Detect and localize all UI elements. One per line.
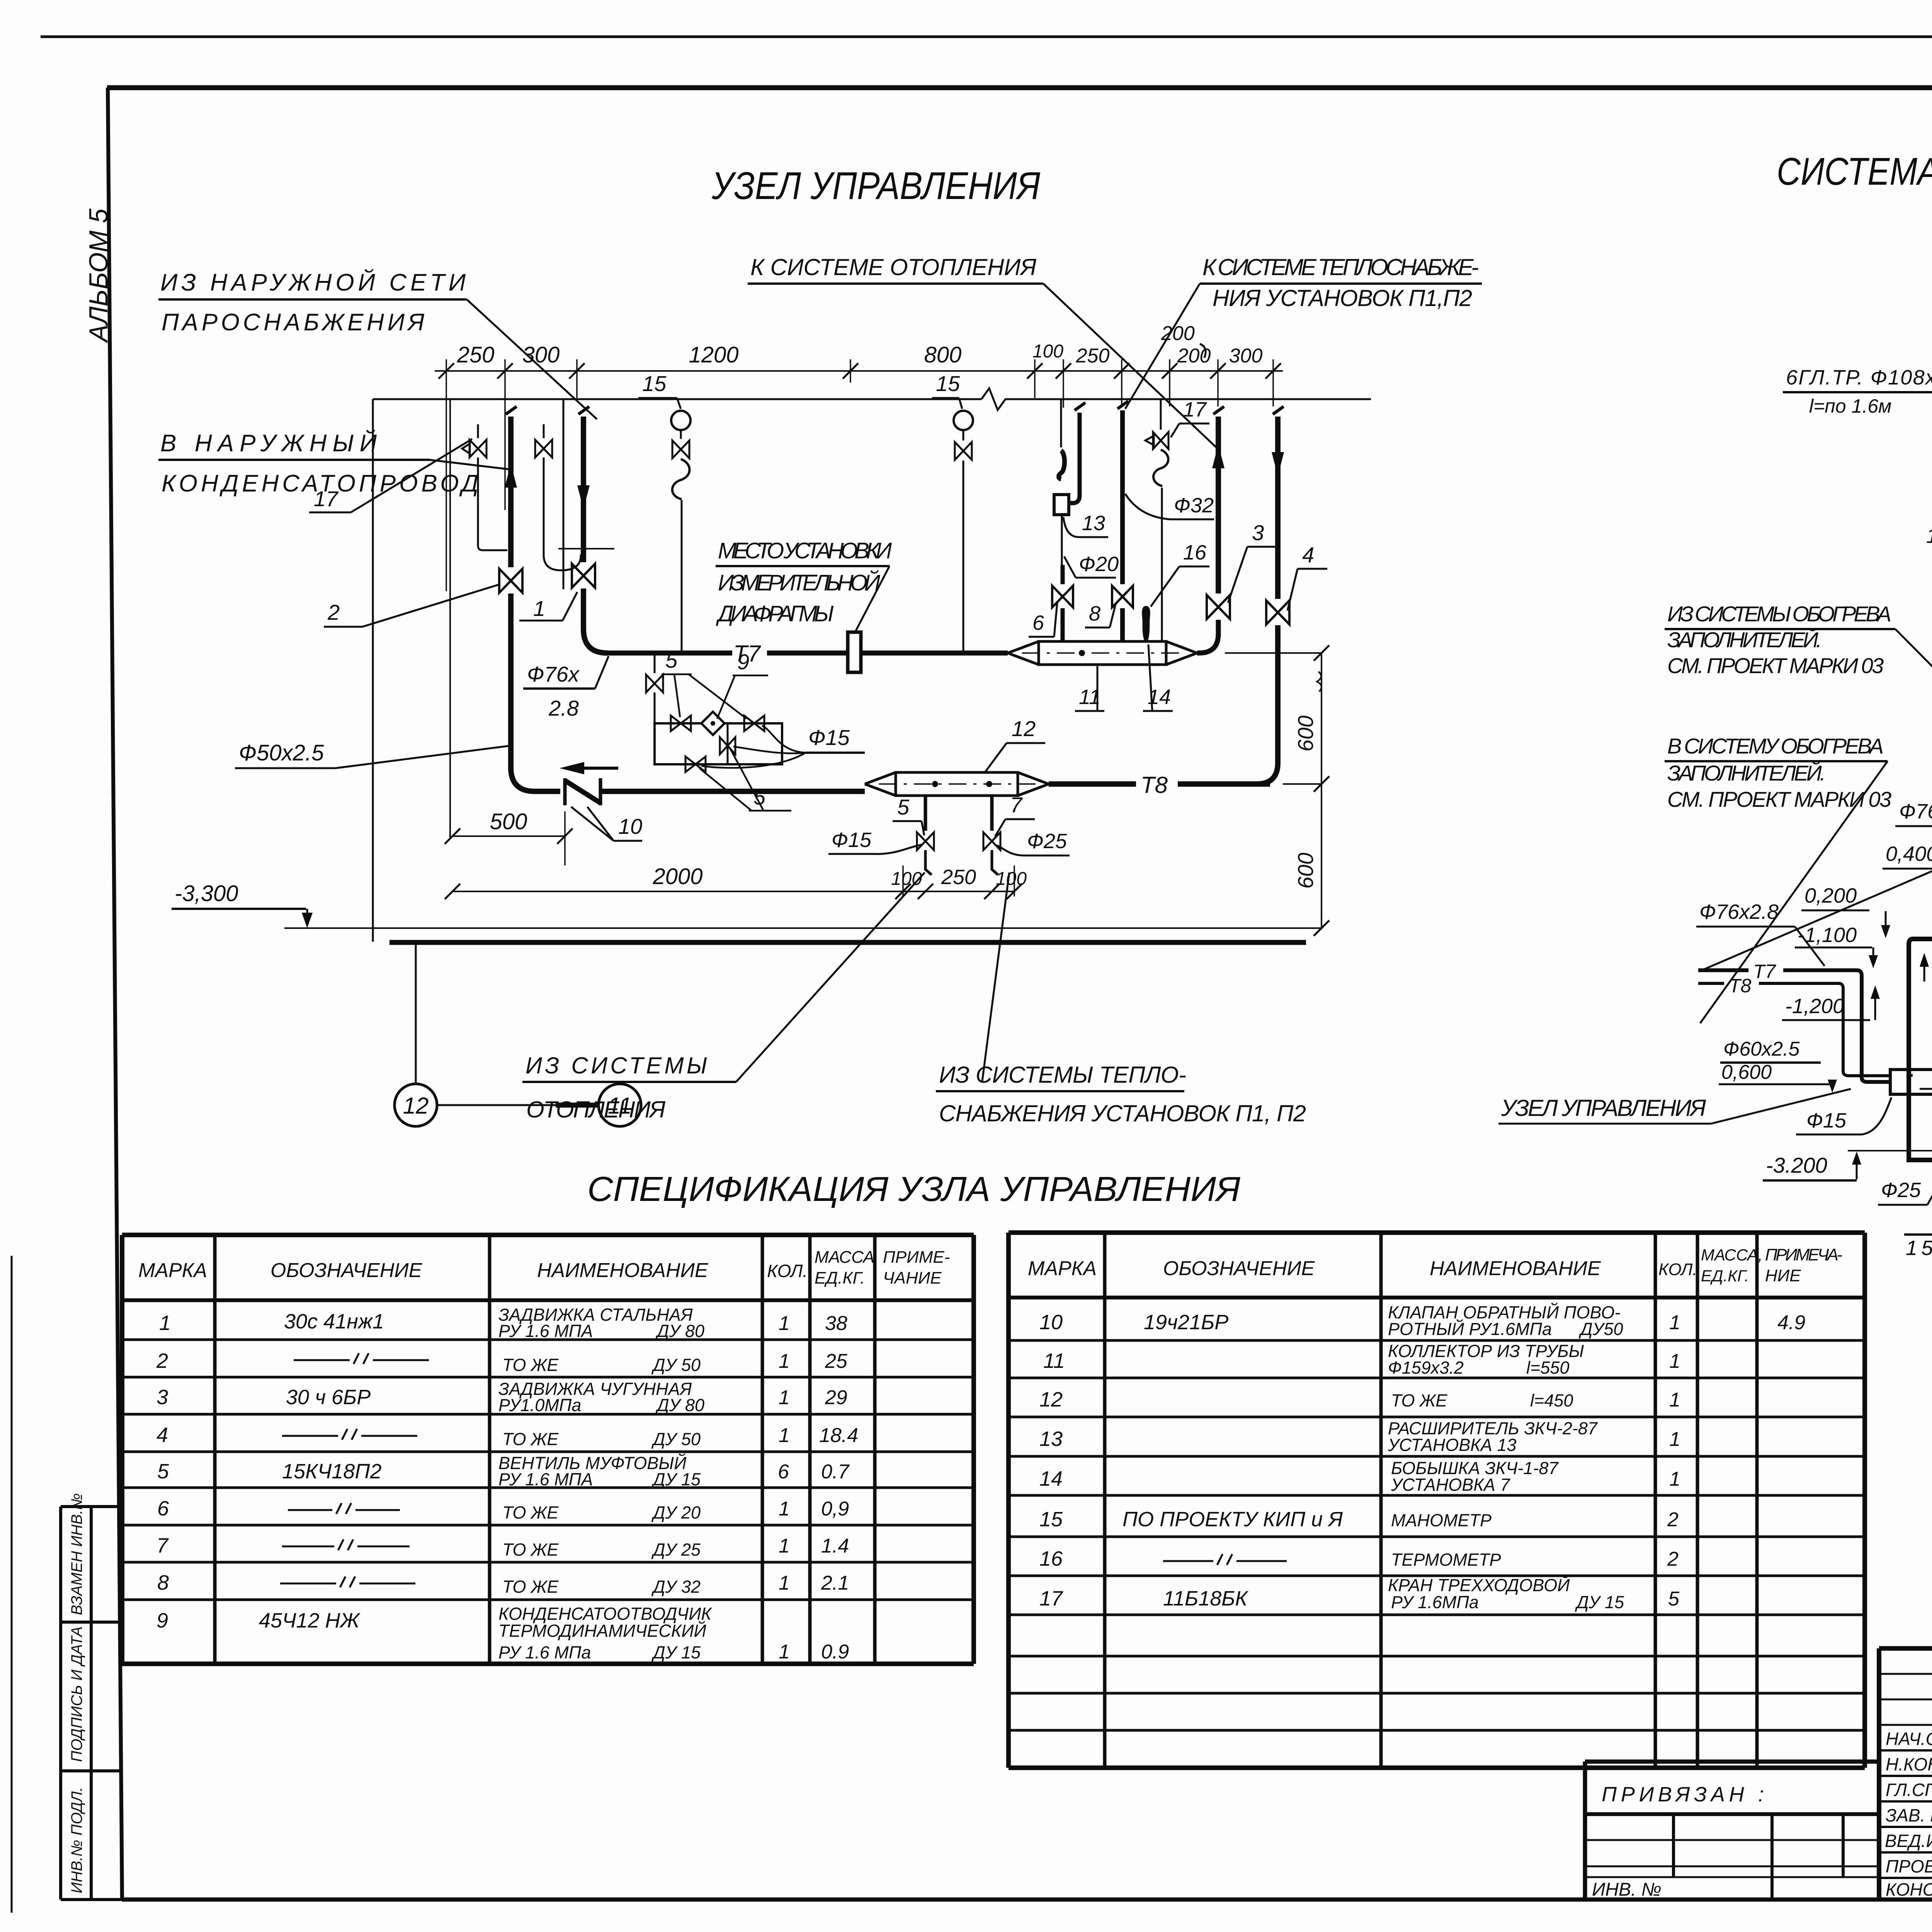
svg-text:НАЧ.ОТД.: НАЧ.ОТД. — [1886, 1729, 1932, 1749]
svg-text:-1,100: -1,100 — [1798, 923, 1857, 947]
svg-text:9: 9 — [737, 650, 749, 674]
svg-text:ТО ЖЕ: ТО ЖЕ — [502, 1503, 559, 1522]
riser: condensate out (pos2 valve) — [506, 406, 517, 414]
svg-text:Ф76х: Ф76х — [527, 662, 580, 686]
inventory side box — [61, 1507, 122, 1900]
dim labels — [457, 341, 1263, 367]
svg-text:ВЗАМЕН ИНВ.№: ВЗАМЕН ИНВ.№ — [68, 1493, 85, 1615]
svg-text:1: 1 — [159, 1311, 171, 1335]
svg-text:К СИСТЕМЕ ОТОПЛЕНИЯ: К СИСТЕМЕ ОТОПЛЕНИЯ — [750, 254, 1036, 280]
svg-text:15: 15 — [1039, 1508, 1063, 1531]
svg-text:6: 6 — [1032, 611, 1044, 634]
svg-text:1: 1 — [1669, 1428, 1680, 1451]
svg-text:5: 5 — [157, 1460, 169, 1483]
svg-text:РУ 1.6 МПА: РУ 1.6 МПА — [498, 1321, 593, 1341]
rows col2 — [1122, 1311, 1343, 1610]
svg-text:ПРИМЕЧА-: ПРИМЕЧА- — [1765, 1245, 1842, 1264]
svg-text:Ф32: Ф32 — [1174, 494, 1214, 517]
svg-text:1: 1 — [779, 1424, 790, 1447]
svg-text:ОБОЗНАЧЕНИЕ: ОБОЗНАЧЕНИЕ — [1163, 1257, 1315, 1280]
svg-text:16: 16 — [1183, 541, 1207, 564]
svg-text:ТО ЖЕ: ТО ЖЕ — [1391, 1391, 1447, 1410]
rows col4/5 — [1667, 1311, 1805, 1610]
condensate trap diamond pos9 — [701, 712, 724, 735]
svg-text:ДУ 15: ДУ 15 — [651, 1469, 701, 1489]
riser pos4 — [1273, 406, 1284, 414]
outer — [1879, 1648, 1932, 1900]
svg-text:НАИМЕНОВАНИЕ: НАИМЕНОВАНИЕ — [1430, 1257, 1601, 1280]
svg-text:ДУ 32: ДУ 32 — [651, 1577, 701, 1597]
svg-text:ПРИМЕ-: ПРИМЕ- — [883, 1248, 950, 1267]
svg-text:38: 38 — [825, 1312, 847, 1335]
svg-text:ТО ЖЕ: ТО ЖЕ — [502, 1540, 559, 1560]
svg-text:0.9: 0.9 — [821, 1641, 849, 1663]
svg-text:КОЛ.: КОЛ. — [767, 1261, 808, 1281]
svg-text:0.7: 0.7 — [821, 1461, 850, 1483]
dim 500 — [452, 835, 565, 837]
svg-text:ЗАПОЛНИТЕЛЕЙ.: ЗАПОЛНИТЕЛЕЙ. — [1667, 761, 1826, 785]
wall vertical 2 — [563, 399, 565, 589]
measuring diaphragm — [848, 632, 861, 672]
svg-text:Ф76х2.8: Ф76х2.8 — [1699, 900, 1779, 923]
collector pos12 on T8 — [865, 772, 896, 796]
svg-text:МАССА: МАССА — [815, 1248, 874, 1267]
svg-text:ЕД.КГ.: ЕД.КГ. — [1701, 1267, 1749, 1285]
break squiggle — [981, 388, 1012, 410]
riser: steam in (pos1 valve) — [578, 406, 589, 414]
svg-text:17: 17 — [1183, 398, 1207, 421]
middle stub valve — [727, 723, 729, 764]
three-way cock riser w/ manometer line — [1160, 399, 1162, 430]
drops below collector 12 — [924, 796, 927, 831]
svg-text:250: 250 — [941, 866, 976, 889]
svg-text:Ф15: Ф15 — [1806, 1109, 1847, 1132]
svg-text:45Ч12 НЖ: 45Ч12 НЖ — [259, 1609, 361, 1632]
svg-text:800: 800 — [924, 342, 962, 367]
svg-text:ИНВ. №: ИНВ. № — [1592, 1879, 1662, 1900]
svg-text:1.4: 1.4 — [821, 1535, 849, 1557]
svg-text:500: 500 — [490, 809, 527, 834]
svg-text:30 ч 6БР: 30 ч 6БР — [286, 1386, 371, 1409]
svg-text:2000: 2000 — [652, 864, 702, 889]
svg-text:НИЕ: НИЕ — [1765, 1266, 1801, 1285]
svg-text:ДУ 50: ДУ 50 — [651, 1355, 701, 1375]
svg-text:2.8: 2.8 — [548, 696, 579, 720]
svg-text:1: 1 — [1669, 1350, 1680, 1372]
svg-text:РУ1.0МПа: РУ1.0МПа — [498, 1395, 581, 1415]
svg-text:13: 13 — [1082, 512, 1105, 535]
svg-text:ЧАНИЕ: ЧАНИЕ — [883, 1269, 942, 1287]
svg-text:МАРКА: МАРКА — [1028, 1257, 1097, 1280]
svg-text:10: 10 — [1039, 1311, 1063, 1334]
svg-text:УСТАНОВКА 13: УСТАНОВКА 13 — [1388, 1435, 1516, 1455]
svg-text:16: 16 — [1039, 1547, 1063, 1570]
svg-text:ИЗ СИСТЕМЫ: ИЗ СИСТЕМЫ — [526, 1053, 707, 1078]
svg-text:ИЗМЕРИТЕЛЬНОЙ: ИЗМЕРИТЕЛЬНОЙ — [718, 570, 881, 595]
svg-text:100: 100 — [1032, 341, 1063, 362]
svg-text:1: 1 — [1669, 1468, 1680, 1490]
svg-text:100: 100 — [891, 869, 922, 889]
svg-text:2: 2 — [156, 1349, 168, 1372]
svg-text:МЕСТО УСТАНОВКИ: МЕСТО УСТАНОВКИ — [718, 538, 892, 563]
svg-text:ПРИВЯЗАН :: ПРИВЯЗАН : — [1602, 1783, 1764, 1806]
svg-text:Ф25: Ф25 — [1881, 1179, 1921, 1202]
svg-text:1: 1 — [779, 1498, 790, 1520]
check valve pos10 — [565, 778, 600, 805]
svg-text:250: 250 — [1076, 345, 1110, 367]
svg-text:Ф15: Ф15 — [808, 725, 850, 750]
svg-text:УСТАНОВКА 7: УСТАНОВКА 7 — [1391, 1475, 1510, 1495]
svg-text:11Б18БК: 11Б18БК — [1163, 1587, 1248, 1610]
svg-text:ЕД.КГ.: ЕД.КГ. — [815, 1269, 865, 1287]
svg-text:ЗАПОЛНИТЕЛЕЙ.: ЗАПОЛНИТЕЛЕЙ. — [1667, 628, 1822, 652]
svg-text:ИЗ СИСТЕМЫ ТЕПЛО-: ИЗ СИСТЕМЫ ТЕПЛО- — [939, 1062, 1186, 1088]
svg-text:0,9: 0,9 — [821, 1498, 849, 1520]
svg-text:l=по 1.6м: l=по 1.6м — [1809, 395, 1891, 417]
svg-text:ДИАФРАГМЫ: ДИАФРАГМЫ — [716, 601, 834, 626]
svg-text:КОНСТР.: КОНСТР. — [1886, 1879, 1932, 1900]
rows col1 numbers — [156, 1311, 171, 1632]
wall top line with break — [373, 398, 1371, 400]
svg-text:ДУ 20: ДУ 20 — [651, 1503, 701, 1522]
svg-text:1: 1 — [779, 1572, 790, 1594]
dim extension verticals — [446, 359, 1273, 591]
svg-text:В СИСТЕМУ ОБОГРЕВА: В СИСТЕМУ ОБОГРЕВА — [1667, 734, 1884, 758]
small top rows — [1879, 1674, 1932, 1725]
svg-text:14: 14 — [1039, 1467, 1063, 1490]
svg-text:СНАБЖЕНИЯ УСТАНОВОК П1, П2: СНАБЖЕНИЯ УСТАНОВОК П1, П2 — [939, 1100, 1306, 1126]
svg-text:МАССА,: МАССА, — [1701, 1246, 1763, 1264]
role rows — [1879, 1750, 1932, 1878]
svg-text:2.1: 2.1 — [821, 1572, 849, 1594]
svg-text:ОБОЗНАЧЕНИЕ: ОБОЗНАЧЕНИЕ — [270, 1259, 423, 1282]
rows col5 massa — [819, 1312, 858, 1663]
svg-text:2: 2 — [327, 600, 340, 624]
svg-text:8: 8 — [1089, 602, 1100, 625]
svg-text:5: 5 — [1668, 1588, 1680, 1610]
svg-text:ВЕД.ИНЖ: ВЕД.ИНЖ — [1885, 1831, 1932, 1851]
svg-text:Ф50х2.5: Ф50х2.5 — [239, 740, 324, 765]
svg-text:0,600: 0,600 — [1721, 1061, 1772, 1083]
short thick riser joining expander — [1075, 403, 1085, 410]
svg-text:600: 600 — [1293, 853, 1318, 889]
rows col4 kol — [778, 1312, 790, 1663]
svg-text:1: 1 — [1669, 1389, 1680, 1411]
svg-text:МАРКА: МАРКА — [138, 1259, 207, 1282]
svg-text:НАИМЕНОВАНИЕ: НАИМЕНОВАНИЕ — [537, 1259, 709, 1282]
svg-text:ТО ЖЕ: ТО ЖЕ — [502, 1577, 559, 1597]
svg-text:8: 8 — [157, 1571, 169, 1594]
svg-text:30с 41нж1: 30с 41нж1 — [284, 1310, 384, 1333]
svg-text:ДУ50: ДУ50 — [1578, 1319, 1623, 1339]
svg-text:600: 600 — [1293, 716, 1318, 752]
bottom line valve — [685, 757, 706, 772]
svg-text:СИСТЕМА ОТОПЛЕНИЯ И ТЕПЛОСН: СИСТЕМА ОТОПЛЕНИЯ И ТЕПЛОСНАБЖЕНИЯ — [1777, 150, 1932, 193]
svg-text:2: 2 — [1667, 1548, 1679, 1570]
svg-text:ТО ЖЕ: ТО ЖЕ — [502, 1355, 559, 1375]
svg-text:9: 9 — [156, 1609, 168, 1632]
svg-text:1: 1 — [779, 1350, 790, 1372]
svg-text:1200: 1200 — [689, 342, 738, 367]
riser pos3 — [1213, 406, 1224, 414]
svg-text:19ч21БР: 19ч21БР — [1144, 1311, 1228, 1334]
svg-text:Ф60х2.5: Ф60х2.5 — [1723, 1038, 1800, 1060]
small riser with valve (17) — [477, 424, 479, 438]
svg-text:15: 15 — [642, 371, 667, 396]
right vertical dim 600/600 — [1225, 653, 1321, 784]
T8 left run — [600, 789, 865, 794]
bypass manifold pos5/9 — [654, 654, 656, 673]
svg-text:3: 3 — [1252, 520, 1264, 545]
svg-text:ДУ 15: ДУ 15 — [1575, 1592, 1624, 1612]
upper pair from diagonals — [1909, 912, 1932, 1160]
svg-text:СПЕЦИФИКАЦИЯ УЗЛА УПРАВЛЕНИЯ: СПЕЦИФИКАЦИЯ УЗЛА УПРАВЛЕНИЯ — [587, 1170, 1241, 1209]
svg-text:СМ. ПРОЕКТ МАРКИ 03: СМ. ПРОЕКТ МАРКИ 03 — [1667, 653, 1884, 678]
svg-text:ТО ЖЕ: ТО ЖЕ — [502, 1429, 559, 1449]
svg-text:12: 12 — [1012, 716, 1036, 741]
svg-text:Т8: Т8 — [1141, 772, 1168, 798]
svg-text:15КЧ 18П2: 15КЧ 18П2 — [1926, 524, 1932, 548]
svg-text:4: 4 — [1302, 543, 1314, 567]
level line and -3.200 — [1848, 1150, 1932, 1151]
svg-text:15: 15 — [936, 371, 960, 396]
top sheet line — [41, 36, 1932, 38]
svg-text:1: 1 — [779, 1386, 790, 1409]
dim ticks — [439, 363, 1281, 379]
svg-text:ДУ 25: ДУ 25 — [651, 1540, 701, 1560]
svg-text:17: 17 — [1039, 1587, 1063, 1610]
svg-text:РОТНЫЙ РУ1.6МПа: РОТНЫЙ РУ1.6МПа — [1388, 1319, 1552, 1339]
svg-text:7: 7 — [1010, 793, 1023, 817]
svg-text:12: 12 — [403, 1093, 429, 1119]
roles — [1885, 1729, 1932, 1900]
svg-text:1: 1 — [779, 1641, 790, 1663]
svg-text:25: 25 — [825, 1350, 848, 1372]
svg-text:ДУ 80: ДУ 80 — [655, 1395, 704, 1415]
floor lines — [284, 927, 1321, 929]
svg-text:УЗЕЛ УПРАВЛЕНИЯ: УЗЕЛ УПРАВЛЕНИЯ — [1501, 1095, 1706, 1121]
svg-text:РУ 1.6МПа: РУ 1.6МПа — [1391, 1592, 1479, 1612]
svg-text:6ГЛ.ТР. Ф108х2.8: 6ГЛ.ТР. Ф108х2.8 — [1786, 366, 1932, 389]
bottom dims 2000 / 100 250 100 — [452, 891, 1014, 892]
svg-text:Ф20: Ф20 — [1079, 553, 1119, 576]
T8 right run — [1049, 781, 1270, 787]
svg-text:l=450: l=450 — [1530, 1391, 1573, 1410]
rows col2 oboznachenie — [259, 1310, 384, 1632]
svg-text:УЗЕЛ УПРАВЛЕНИЯ: УЗЕЛ УПРАВЛЕНИЯ — [711, 164, 1041, 207]
svg-text:17: 17 — [314, 486, 338, 511]
svg-text:12: 12 — [1039, 1388, 1063, 1411]
svg-text:Ф15: Ф15 — [832, 828, 872, 852]
svg-text:МАНОМЕТР: МАНОМЕТР — [1391, 1510, 1492, 1530]
main frame — [108, 88, 122, 1900]
risers above collector 11: pos13/expander branch — [1060, 399, 1062, 447]
svg-text:3: 3 — [156, 1386, 168, 1409]
svg-text:Ф76х2.8: Ф76х2.8 — [1899, 800, 1932, 823]
svg-text:13: 13 — [1039, 1427, 1063, 1451]
svg-text:Н.КОНТР.: Н.КОНТР. — [1886, 1754, 1932, 1774]
rows col3 — [1388, 1303, 1624, 1612]
svg-text:ИЗ СИСТЕМЫ ОБОГРЕВА: ИЗ СИСТЕМЫ ОБОГРЕВА — [1667, 602, 1891, 626]
svg-text:10: 10 — [618, 814, 642, 838]
svg-text:1: 1 — [779, 1312, 790, 1335]
svg-text:РУ 1.6 МПА: РУ 1.6 МПА — [498, 1469, 593, 1489]
collector pos11 on T7 — [1008, 641, 1039, 665]
svg-text:2: 2 — [1667, 1509, 1679, 1531]
T7 right elbow up — [1197, 634, 1218, 653]
svg-text:7: 7 — [156, 1534, 169, 1557]
svg-text:КОЛ.: КОЛ. — [1658, 1260, 1697, 1279]
svg-text:ОТОПЛЕНИЯ: ОТОПЛЕНИЯ — [526, 1097, 665, 1122]
right spec table grid — [1009, 1233, 1865, 1768]
svg-text:-3,300: -3,300 — [175, 881, 238, 906]
uzel box — [1890, 1070, 1932, 1094]
node circles 12-11 — [415, 942, 417, 1083]
svg-text:100: 100 — [996, 869, 1027, 889]
left page edge mark — [11, 1256, 13, 1913]
svg-text:1: 1 — [1669, 1311, 1680, 1334]
riser pos8 — [1117, 401, 1128, 409]
T7/T8 stubs left — [1698, 968, 1857, 972]
rows col1 — [1039, 1311, 1065, 1610]
svg-text:АЛЬБОМ 5: АЛЬБОМ 5 — [84, 209, 113, 344]
svg-text:ГЛ.СПЕЦ.: ГЛ.СПЕЦ. — [1886, 1780, 1932, 1800]
T7 run — [607, 651, 847, 656]
svg-text:ПРОВЕР.: ПРОВЕР. — [1886, 1856, 1932, 1876]
svg-text:18.4: 18.4 — [819, 1424, 858, 1447]
small riser with valve + U-curve — [543, 424, 545, 438]
svg-text:Ф159х3.2: Ф159х3.2 — [1388, 1358, 1464, 1378]
svg-text:5: 5 — [897, 795, 910, 819]
svg-text:4: 4 — [156, 1423, 168, 1447]
svg-text:0,400: 0,400 — [1886, 842, 1932, 866]
svg-text:11: 11 — [1043, 1349, 1065, 1372]
svg-text:ЗАВ. ГР.: ЗАВ. ГР. — [1886, 1805, 1932, 1825]
svg-text:1: 1 — [779, 1535, 790, 1557]
svg-text:ДУ 80: ДУ 80 — [655, 1321, 704, 1341]
svg-text:0,200: 0,200 — [1804, 884, 1857, 907]
wall left vertical — [372, 399, 374, 942]
svg-text:6: 6 — [778, 1461, 789, 1483]
rows col3 naimenovanie — [498, 1305, 712, 1662]
svg-text:29: 29 — [825, 1386, 847, 1409]
svg-text:ИНВ.№ ПОДЛ.: ИНВ.№ ПОДЛ. — [68, 1787, 85, 1893]
svg-text:ДУ 15: ДУ 15 — [651, 1643, 701, 1662]
svg-text:1: 1 — [533, 596, 545, 621]
svg-text:НИЯ УСТАНОВОК П1,П2: НИЯ УСТАНОВОК П1,П2 — [1213, 285, 1472, 311]
svg-text:4.9: 4.9 — [1777, 1311, 1805, 1334]
svg-text:300: 300 — [1229, 345, 1263, 367]
svg-text:СМ. ПРОЕКТ МАРКИ 03: СМ. ПРОЕКТ МАРКИ 03 — [1667, 787, 1891, 811]
valves on manifold — [671, 716, 691, 731]
svg-text:ПОДПИСЬ И ДАТА: ПОДПИСЬ И ДАТА — [68, 1626, 85, 1762]
left spec table grid — [122, 1235, 974, 1664]
ditto marks — [280, 1353, 429, 1587]
svg-text:ТЕРМОМЕТР: ТЕРМОМЕТР — [1391, 1550, 1501, 1570]
dimension line top — [435, 370, 1283, 372]
svg-text:5: 5 — [665, 648, 678, 672]
privyazan box — [1585, 1762, 1879, 1900]
thermometer pos16 teardrop — [1142, 606, 1150, 641]
svg-text:l=550: l=550 — [1526, 1358, 1569, 1378]
svg-text:-1,200: -1,200 — [1785, 995, 1844, 1018]
svg-text:ТЕРМОДИНАМИЧЕСКИЙ: ТЕРМОДИНАМИЧЕСКИЙ — [498, 1621, 707, 1641]
svg-text:Т7: Т7 — [1753, 961, 1777, 982]
svg-text:6: 6 — [157, 1497, 169, 1520]
svg-text:К СИСТЕМЕ ТЕПЛОСНАБЖЕ-: К СИСТЕМЕ ТЕПЛОСНАБЖЕ- — [1202, 254, 1479, 280]
flow arrow left — [560, 762, 584, 774]
svg-text:250: 250 — [457, 342, 495, 367]
svg-text:Ф25: Ф25 — [1027, 830, 1067, 853]
svg-text:-3.200: -3.200 — [1766, 1153, 1827, 1177]
svg-text:ДУ 50: ДУ 50 — [651, 1429, 701, 1449]
svg-text:РУ 1.6 МПа: РУ 1.6 МПа — [498, 1643, 591, 1662]
svg-text:15КЧ18П2: 15КЧ18П2 — [282, 1460, 381, 1483]
svg-text:ПО ПРОЕКТУ КИП и Я: ПО ПРОЕКТУ КИП и Я — [1122, 1508, 1343, 1531]
